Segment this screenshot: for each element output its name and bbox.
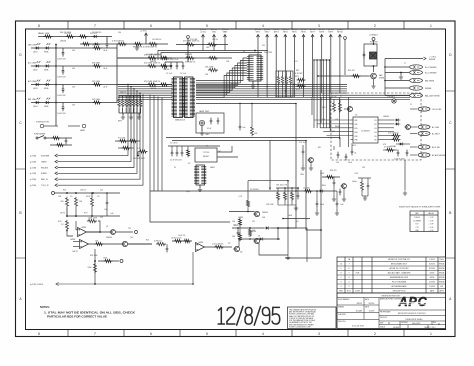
svg-text:RV1 275V: RV1 275V: [370, 42, 379, 44]
connector pin J1-3 BAT SENS: [385, 78, 435, 82]
svg-text:BAT SENS: BAT SENS: [425, 79, 435, 82]
svg-text:D4: D4: [258, 236, 260, 238]
svg-text:7805: 7805: [300, 174, 304, 176]
svg-text:+5 VDL: +5 VDL: [200, 32, 206, 34]
svg-text:470 OHM 1/4W 5%: 470 OHM 1/4W 5%: [144, 81, 161, 83]
svg-text:FSCM NO.: FSCM NO.: [401, 322, 409, 324]
svg-text:(p.2 B8) 1.6KHZ: (p.2 B8) 1.6KHZ: [30, 284, 44, 286]
node analog input pin: [52, 192, 121, 195]
svg-text:LM393: LM393: [238, 217, 243, 219]
IC U1 microcontroller: [174, 77, 183, 118]
svg-text:(p.2 B8): (p.2 B8): [30, 167, 36, 169]
svg-text:IN2: IN2: [355, 124, 358, 126]
svg-text:Q10: Q10: [130, 237, 133, 239]
svg-text:1: 1: [430, 332, 432, 336]
svg-text:6: 6: [349, 268, 350, 270]
net flag +5 VDL: [200, 29, 206, 50]
svg-text:10K X 7: 10K X 7: [120, 92, 126, 94]
zone labels: [19, 24, 452, 336]
svg-text:+5 VOL: +5 VOL: [140, 31, 148, 33]
svg-text:1.0UF 50V: 1.0UF 50V: [57, 58, 66, 60]
svg-text:SENSE: SENSE: [429, 59, 436, 61]
svg-text:TP1: TP1: [128, 228, 131, 230]
svg-text:IN4: IN4: [355, 132, 358, 134]
svg-text:10K 10K 4.7K: 10K 10K 4.7K: [276, 185, 288, 187]
connector pin J2-2 AC LINE: [410, 125, 440, 129]
svg-text:6: 6: [150, 332, 152, 336]
wire analog mid rail: [66, 206, 120, 216]
svg-text:1/19/95: 1/19/95: [429, 259, 435, 261]
junction dots analog: [66, 140, 322, 285]
ground relay section: [403, 160, 407, 195]
svg-text:NET9: NET9: [329, 32, 334, 34]
svg-text:7: 7: [349, 264, 350, 266]
op-amp U6A: [78, 227, 87, 237]
svg-text:CONTACT: CONTACT: [387, 96, 395, 99]
resistor R19 feedback: [76, 218, 100, 233]
date stamp 12/8/95: [218, 308, 224, 324]
svg-text:.01: .01: [354, 153, 356, 155]
svg-text:1.5K 1/4W 5%: 1.5K 1/4W 5%: [212, 244, 224, 246]
svg-text:.01uF: .01uF: [103, 68, 107, 70]
svg-text:(p.2 B8): (p.2 B8): [30, 161, 36, 163]
svg-text:LM358: LM358: [198, 242, 203, 244]
transistor Q7 fan drive: [369, 73, 385, 79]
svg-text:REASSEMBLED PER: REASSEMBLED PER: [390, 276, 409, 279]
svg-text:U11: U11: [252, 221, 255, 223]
wire Q2 collector out: [283, 218, 310, 220]
svg-text:+ 1 OF: + 1 OF: [429, 217, 434, 219]
svg-text:10K 1%: 10K 1%: [72, 251, 78, 253]
transistor Q4: [233, 239, 280, 254]
svg-text:5: 5: [341, 286, 342, 288]
svg-text:RESET: RESET: [203, 156, 210, 158]
svg-text:R17: R17: [416, 224, 419, 226]
svg-text:.1uF: .1uF: [340, 204, 343, 206]
svg-text:U9: U9: [355, 115, 357, 117]
net flag NET9: [328, 29, 334, 93]
svg-text:PARTICULAR BDS FOR CORRECT VAL: PARTICULAR BDS FOR CORRECT VALUE: [47, 315, 107, 319]
svg-text:O5: O5: [374, 136, 377, 138]
svg-text:1K 1/4W 5%: 1K 1/4W 5%: [92, 32, 102, 34]
svg-text:RESISTOR 10 OHM 1/4W 5%: RESISTOR 10 OHM 1/4W 5%: [133, 47, 158, 49]
svg-text:DWG FILE: DWG FILE: [338, 321, 346, 323]
switch SW3 with resistor R14: [34, 134, 72, 147]
node +5V top-left flag: [140, 31, 148, 45]
svg-text:K1: K1: [340, 96, 342, 98]
wire bundle vertical x314-330: [313, 59, 330, 128]
diode D5 and diode D6: [394, 118, 400, 125]
svg-text:PUSH BUTTON: PUSH BUTTON: [36, 122, 50, 124]
svg-text:VALUE: VALUE: [428, 212, 434, 215]
capacitor C14: [233, 225, 240, 237]
svg-text:J2: J2: [410, 104, 412, 106]
svg-text:10K 1%: 10K 1%: [80, 190, 86, 192]
svg-text:5: 5: [349, 273, 350, 275]
svg-text:R44 220 1/4W: R44 220 1/4W: [60, 32, 71, 34]
wire 1.6KHZ net: [30, 252, 193, 286]
net flag NET1: [255, 29, 261, 97]
wire long mid horizontal: [166, 138, 340, 148]
bus wrap bundle to page-2 flags: [58, 84, 144, 185]
resistor R43 and diode D8: [295, 188, 324, 193]
ground near C40: [135, 44, 139, 50]
svg-text:6CD-03 SCH: 6CD-03 SCH: [352, 325, 364, 327]
svg-text:LM358: LM358: [70, 239, 75, 241]
svg-text:IN1: IN1: [355, 120, 358, 122]
op-amp U7A: [196, 242, 205, 252]
ground under Q7: [371, 79, 375, 88]
svg-text:C22: C22: [100, 217, 103, 219]
svg-text:R21: R21: [146, 240, 149, 242]
svg-text:BC-X SENSE: BC-X SENSE: [425, 72, 437, 74]
svg-text:10uF: 10uF: [348, 162, 352, 164]
svg-text:NET5: NET5: [292, 32, 297, 34]
svg-text:10: 10: [340, 264, 342, 266]
svg-text:1uF: 1uF: [104, 209, 107, 211]
svg-text:.01uF: .01uF: [103, 50, 107, 52]
svg-text:100uF: 100uF: [352, 181, 357, 183]
contact pin K1 aux: [387, 96, 396, 104]
IC U2 latch: [185, 77, 194, 118]
svg-text:3: 3: [349, 282, 350, 284]
wire bus above U3: [158, 50, 268, 60]
row with resistor R6: [117, 54, 172, 59]
net flag RUNTIME: [30, 154, 58, 157]
svg-text:392 OHM: 392 OHM: [92, 44, 100, 46]
svg-text:4: 4: [262, 24, 264, 28]
lamp test switch SW1: [199, 120, 204, 125]
svg-text:8/25/94: 8/25/94: [429, 264, 435, 266]
capacitor C10: [104, 193, 108, 211]
svg-text:+ 3 OF: + 3 OF: [429, 224, 434, 226]
svg-text:U4: U4: [206, 146, 208, 148]
svg-text:940-0023: 940-0023: [412, 323, 421, 325]
svg-text:BC-X SENSE: BC-X SENSE: [425, 67, 437, 69]
potentiometer VR1 cluster: [115, 138, 140, 150]
svg-text:LED1: LED1: [33, 52, 38, 54]
wire bridge to Q7: [373, 65, 375, 72]
svg-text:LED2: LED2: [33, 70, 38, 72]
svg-text:8: 8: [38, 24, 40, 28]
wire fan U3 to U1/U2: [196, 58, 247, 97]
wire bundle east of U2: [196, 85, 410, 100]
svg-text:RELAYS: RELAYS: [41, 166, 49, 169]
connector pin J1-2 BC-X SENSE: [385, 70, 437, 74]
svg-text:1.0UF 50V: 1.0UF 50V: [57, 95, 66, 97]
svg-text:0.1uF: 0.1uF: [207, 128, 211, 130]
ground under RN1 a: [121, 115, 125, 120]
svg-text:0.047uF 250V: 0.047uF 250V: [394, 159, 405, 161]
capacitor C15 transistor Q5 with grounds: [301, 145, 314, 170]
node fan sense pin: [344, 37, 347, 75]
svg-text:1: 1: [430, 24, 432, 28]
diode D7: [396, 142, 410, 145]
top rail with resistor R40 and resistor R41: [38, 32, 112, 38]
svg-text:Q12: Q12: [332, 131, 335, 133]
node crystal pin: [187, 36, 190, 62]
svg-text:2N3906: 2N3906: [262, 212, 268, 214]
resistor R18: [61, 220, 73, 236]
resistor R29 to test point: [94, 258, 123, 263]
svg-text:RELAY: RELAY: [335, 125, 341, 128]
svg-text:AC LINE: AC LINE: [432, 126, 440, 129]
resistor R39: [249, 227, 256, 237]
net flag SHMSL: [30, 172, 58, 175]
svg-text:CHECKED: CHECKED: [338, 314, 347, 316]
svg-text:BETA POR 7525 PBA-747: BETA POR 7525 PBA-747: [388, 258, 410, 261]
svg-text:REV: REV: [433, 322, 436, 324]
op-amp U6B: [73, 240, 89, 249]
svg-text:C13: C13: [416, 227, 419, 229]
svg-text:8/23/94: 8/23/94: [429, 268, 435, 270]
resistor divider R41 R42: [232, 218, 242, 241]
connector pin J2-5 AC AUX SENSE: [410, 153, 446, 157]
substitute table: [410, 211, 438, 232]
transistor Q10: [121, 241, 152, 246]
svg-text:AC2 LINE: AC2 LINE: [28, 80, 37, 83]
svg-text:22pF: 22pF: [186, 191, 190, 193]
svg-text:BK-X SEL: BK-X SEL: [432, 147, 440, 149]
svg-text:ON OF SEL: ON OF SEL: [432, 109, 442, 111]
svg-text:7: 7: [341, 277, 342, 279]
svg-text:10 1/4W 5%: 10 1/4W 5%: [152, 39, 162, 41]
svg-text:10.2K 1%: 10.2K 1%: [178, 235, 186, 237]
IC U8 relay driver: [351, 117, 382, 143]
svg-text:BETA DRAIN ONLY: BETA DRAIN ONLY: [391, 263, 408, 266]
ground under R22-R24: [278, 205, 298, 210]
svg-text:FUSE SENSE: FUSE SENSE: [34, 134, 46, 136]
transistor Q9: [404, 125, 410, 130]
net flag TOOL_W: [30, 184, 58, 187]
node CONTACT pin: [369, 34, 379, 45]
svg-text:10K 10K: 10K 10K: [330, 97, 337, 99]
svg-text:O1: O1: [374, 120, 377, 122]
svg-text:470 1/4W: 470 1/4W: [190, 39, 198, 41]
svg-text:TURBO/UPS 3KVA L: TURBO/UPS 3KVA L: [405, 318, 423, 321]
net flag NET8: [319, 29, 325, 93]
svg-text:AC AUX SENSE: AC AUX SENSE: [432, 154, 446, 157]
svg-text:POT: POT: [84, 213, 87, 215]
svg-text:9: 9: [341, 268, 342, 270]
capacitor C24: [351, 143, 357, 155]
svg-text:5: 5: [206, 24, 208, 28]
resistor group R22-R24 with capacitor C12: [276, 185, 299, 206]
resistor R21 and capacitor C11: [154, 241, 168, 253]
svg-text:NET4: NET4: [283, 32, 288, 34]
svg-text:EW-E: EW-E: [440, 259, 444, 261]
svg-text:2: 2: [374, 332, 376, 336]
svg-text:7: 7: [94, 332, 96, 336]
svg-text:O6: O6: [374, 140, 377, 142]
svg-text:100 OHM 1/4W: 100 OHM 1/4W: [133, 158, 145, 160]
svg-text:10.2K 1% 1K: 10.2K 1% 1K: [171, 238, 182, 240]
optocoupler row 2 with LED2, resistor, capacitor: [28, 61, 117, 78]
lamp LP1: [68, 124, 86, 132]
diode D3 and capacitor C13: [232, 226, 307, 262]
svg-text:6: 6: [341, 282, 342, 284]
svg-text:BAL-LAST SENS: BAL-LAST SENS: [425, 94, 440, 97]
net flag VBAT: [222, 29, 228, 50]
svg-text:RP1: RP1: [296, 70, 299, 72]
svg-text:(p.2 B8): (p.2 B8): [30, 179, 36, 181]
svg-text:1N4004: 1N4004: [383, 116, 389, 118]
svg-text:NET7: NET7: [310, 32, 315, 34]
svg-text:R32 47K: R32 47K: [348, 70, 355, 72]
svg-text:6: 6: [150, 24, 152, 28]
capacitor C20 and capacitor C21: [334, 146, 347, 164]
wire long mid horizontal 2: [172, 140, 306, 142]
pull-down resistor array RN1 (7 resistors): [118, 96, 142, 113]
svg-text:U3: U3: [243, 51, 245, 53]
svg-text:SHEET 1 OF 2: SHEET 1 OF 2: [424, 327, 435, 329]
wire bundle west of U1: [118, 85, 172, 100]
svg-text:U5: U5: [188, 163, 190, 165]
svg-text:AC1 LINE: AC1 LINE: [28, 62, 37, 65]
optocoupler row 1 with LED1, resistor, capacitor: [28, 43, 117, 60]
wire to Q2 base: [229, 211, 255, 213]
svg-text:NOTES:: NOTES:: [40, 305, 50, 309]
svg-text:MAN-6CD3: MAN-6CD3: [175, 119, 185, 122]
wire U6A output: [87, 231, 111, 233]
svg-text:0.1uF 50V 0.1uF: 0.1uF 50V 0.1uF: [165, 59, 179, 61]
svg-text:APCAL 30 C/I DRIVER: APCAL 30 C/I DRIVER: [390, 267, 410, 270]
resistor R30: [320, 173, 340, 179]
connector pin J2-3 AC NEUT: [410, 131, 441, 135]
svg-text:4.7K SIP: 4.7K SIP: [295, 73, 303, 75]
wires bundle into relay section: [312, 97, 348, 147]
vertical bus x117: [116, 45, 118, 103]
svg-text:+ 4 OF: + 4 OF: [429, 227, 434, 229]
svg-text:COM-10: COM-10: [414, 217, 420, 219]
resistor R2 and resistor R3: [176, 41, 228, 50]
svg-text:O3: O3: [374, 128, 377, 130]
resistor R31 capacitor C17 ground: [358, 178, 371, 200]
resistor R10 pull-up on RUNTIME: [133, 148, 148, 160]
capacitor C16 transistor Q6 grounds: [332, 177, 347, 201]
resistor R37: [251, 103, 258, 136]
svg-text:1N4148: 1N4148: [163, 69, 169, 71]
svg-text:4.7K 1/4W 5%: 4.7K 1/4W 5%: [112, 40, 124, 42]
capacitor C23: [239, 103, 246, 131]
svg-text:Q4: Q4: [228, 243, 230, 245]
row with resistor R7 and resistor R8: [117, 62, 218, 71]
svg-text:NET1: NET1: [256, 32, 261, 34]
IC U3 shift register: [249, 55, 261, 81]
transistor Q8: [344, 107, 353, 112]
relay section enclosure (dashed): [331, 93, 421, 160]
net flag RAIL_W: [30, 178, 58, 181]
svg-text:7: 7: [94, 24, 96, 28]
svg-text:8: 8: [341, 273, 342, 275]
connector pin J2-1 ON OF SEL: [410, 107, 442, 111]
bus drop bundle to analog section: [150, 95, 162, 192]
svg-text:(p.2 B8): (p.2 B8): [30, 185, 36, 187]
connector pin J1-5 BAL-LAST SENS: [385, 93, 440, 97]
IC U4 supervisor: [195, 148, 217, 162]
net flag NET4: [282, 29, 288, 97]
svg-text:IN6: IN6: [355, 140, 358, 142]
svg-text:C2 .1uF: C2 .1uF: [166, 73, 172, 75]
wire enclosure step: [150, 191, 230, 222]
vertical bus left: [55, 45, 57, 127]
svg-text:8: 8: [38, 332, 40, 336]
transistor Q2: [253, 211, 268, 216]
svg-text:RUNTIME: RUNTIME: [41, 155, 50, 157]
resistor R11 and resistor R12: [297, 78, 306, 87]
svg-text:0.1uF 10V 20%: 0.1uF 10V 20%: [170, 160, 182, 162]
svg-text:LED4: LED4: [33, 106, 38, 108]
capacitor C18 and capacitor C19: [394, 150, 408, 161]
svg-text:C14: C14: [248, 236, 251, 238]
svg-text:PILOT RELEASE: PILOT RELEASE: [392, 281, 407, 284]
ground under RN1 b: [129, 115, 133, 120]
svg-text:NET6: NET6: [301, 32, 306, 34]
svg-text:RAIL_W: RAIL_W: [41, 178, 48, 181]
svg-text:LAMP TEST: LAMP TEST: [199, 110, 210, 113]
svg-text:Q2 2N3906: Q2 2N3906: [250, 189, 259, 191]
svg-text:ELDAR: ELDAR: [356, 309, 363, 312]
svg-text:NET2: NET2: [265, 32, 270, 34]
svg-text:CONTACT: CONTACT: [369, 34, 379, 37]
svg-text:10K 5%: 10K 5%: [212, 39, 218, 41]
net flag NET2: [264, 29, 270, 97]
svg-text:C7 C8 C9: C7 C8 C9: [170, 143, 177, 145]
svg-text:ALPHA RELEASE: ALPHA RELEASE: [392, 285, 408, 288]
svg-text:C3 .1uF: C3 .1uF: [180, 73, 186, 75]
svg-text:TOOL_W: TOOL_W: [41, 185, 49, 187]
inner border frame: [26, 29, 446, 330]
svg-text:10uF: 10uF: [320, 204, 324, 206]
svg-text:AC NEUT: AC NEUT: [432, 132, 441, 135]
svg-text:J1: J1: [404, 63, 406, 65]
svg-text:1.0UF 50V: 1.0UF 50V: [57, 76, 66, 78]
connector pin J1-1 BC-X SENSE: [385, 65, 437, 69]
ground under U3: [251, 81, 255, 88]
svg-text:+ 5 OF: + 5 OF: [429, 230, 434, 232]
resistor R20: [89, 241, 153, 246]
optocoupler row 3 with LED3, resistor, capacitor: [28, 80, 117, 97]
capacitor C5 and capacitor C6: [207, 118, 219, 130]
capacitor C26 with ground: [335, 191, 344, 215]
svg-text:1/10/95: 1/10/95: [369, 310, 375, 312]
svg-text:RP1: RP1: [295, 76, 299, 78]
wires from U4: [217, 146, 238, 157]
net flag NET6: [300, 29, 306, 97]
svg-text:ADD ALT BATT. CHARGER: ADD ALT BATT. CHARGER: [388, 272, 411, 275]
svg-text:NET8: NET8: [319, 32, 324, 34]
svg-text:R15: R15: [63, 190, 66, 192]
net flag NET5: [291, 29, 297, 97]
APC logo: [396, 295, 430, 309]
optocoupler row 4 with LED4, resistor, capacitor: [28, 98, 117, 115]
net flag RELAYS: [30, 166, 58, 169]
svg-text:10K 1/4W: 10K 1/4W: [266, 204, 274, 206]
wire enclosure top: [150, 190, 337, 192]
svg-text:Q1: Q1: [106, 226, 108, 228]
ground under Q3: [259, 227, 290, 260]
resistor R27: [205, 244, 233, 249]
svg-text:LAMP: LAMP: [80, 129, 86, 132]
ground under U5: [198, 185, 202, 192]
resistor R25 and resistor R26: [171, 238, 192, 243]
connector pin J2-4 BK-X SEL: [410, 145, 440, 149]
svg-text:R30 470: R30 470: [330, 170, 336, 172]
pushbutton SW2: [36, 122, 58, 128]
analog section labels: [58, 131, 366, 253]
net flag GND: [211, 29, 217, 50]
wire vertical x270: [269, 141, 271, 191]
